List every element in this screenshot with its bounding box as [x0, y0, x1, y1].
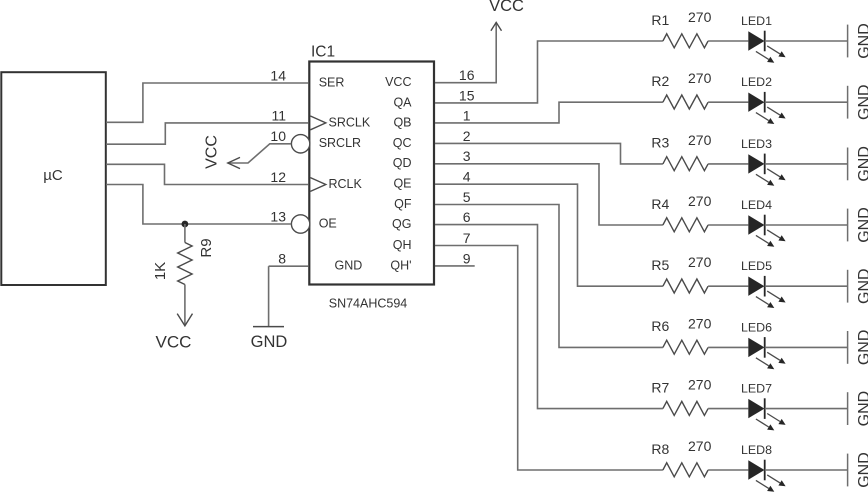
svg-text:270: 270 [688, 254, 712, 270]
svg-text:VCC: VCC [203, 135, 220, 169]
svg-text:GND: GND [856, 452, 868, 488]
svg-text:R7: R7 [651, 379, 669, 395]
svg-text:LED8: LED8 [741, 443, 772, 457]
svg-text:3: 3 [463, 148, 471, 164]
svg-text:1K: 1K [152, 262, 169, 280]
svg-text:270: 270 [688, 315, 712, 331]
svg-text:GND: GND [856, 84, 868, 120]
svg-text:QD: QD [393, 156, 412, 170]
svg-text:QC: QC [393, 136, 412, 150]
svg-text:5: 5 [463, 189, 471, 205]
svg-text:GND: GND [856, 268, 868, 304]
svg-text:R8: R8 [651, 441, 669, 457]
svg-text:LED6: LED6 [741, 320, 772, 334]
svg-text:2: 2 [463, 128, 471, 144]
svg-text:SRCLR: SRCLR [319, 136, 361, 150]
svg-text:9: 9 [463, 250, 471, 266]
svg-text:6: 6 [463, 209, 471, 225]
svg-text:14: 14 [270, 67, 286, 83]
svg-text:R5: R5 [651, 257, 669, 273]
svg-text:10: 10 [270, 128, 286, 144]
svg-text:1: 1 [463, 107, 471, 123]
svg-text:270: 270 [688, 70, 712, 86]
svg-text:12: 12 [270, 169, 286, 185]
svg-text:GND: GND [856, 23, 868, 59]
svg-text:QH': QH' [390, 258, 411, 272]
svg-text:R6: R6 [651, 318, 669, 334]
svg-text:SRCLK: SRCLK [329, 115, 371, 129]
svg-text:SER: SER [319, 75, 345, 89]
svg-text:QB: QB [393, 115, 411, 129]
svg-text:QG: QG [392, 217, 411, 231]
svg-text:R1: R1 [651, 12, 669, 28]
svg-text:R9: R9 [198, 238, 215, 257]
svg-text:µC: µC [43, 167, 63, 184]
svg-text:R3: R3 [651, 135, 669, 151]
svg-text:GND: GND [251, 333, 288, 351]
svg-text:LED1: LED1 [741, 14, 772, 28]
svg-text:270: 270 [688, 132, 712, 148]
svg-text:15: 15 [459, 87, 475, 103]
svg-text:GND: GND [335, 259, 363, 273]
svg-text:SN74AHC594: SN74AHC594 [329, 297, 408, 311]
svg-text:OE: OE [319, 216, 337, 230]
svg-text:4: 4 [463, 169, 471, 185]
svg-text:RCLK: RCLK [329, 177, 363, 191]
svg-text:GND: GND [856, 146, 868, 182]
svg-text:270: 270 [688, 377, 712, 393]
svg-text:QH: QH [393, 238, 412, 252]
svg-text:QA: QA [393, 95, 412, 109]
svg-text:VCC: VCC [156, 333, 192, 352]
svg-text:11: 11 [271, 107, 286, 123]
svg-text:LED3: LED3 [741, 137, 772, 151]
svg-text:LED5: LED5 [741, 259, 772, 273]
svg-text:13: 13 [270, 208, 286, 224]
svg-text:R4: R4 [651, 196, 669, 212]
svg-text:QF: QF [394, 197, 412, 211]
svg-text:270: 270 [688, 9, 712, 25]
svg-text:7: 7 [463, 230, 471, 246]
svg-text:8: 8 [278, 251, 286, 267]
svg-text:VCC: VCC [385, 75, 411, 89]
svg-text:LED4: LED4 [741, 198, 772, 212]
svg-text:16: 16 [459, 67, 475, 83]
svg-text:270: 270 [688, 193, 712, 209]
svg-text:IC1: IC1 [311, 44, 335, 61]
svg-text:GND: GND [856, 330, 868, 366]
svg-text:GND: GND [856, 207, 868, 243]
svg-text:270: 270 [688, 438, 712, 454]
svg-text:VCC: VCC [489, 0, 524, 15]
svg-text:R2: R2 [651, 73, 669, 89]
svg-text:GND: GND [856, 391, 868, 427]
svg-text:QE: QE [393, 177, 411, 191]
svg-text:LED2: LED2 [741, 75, 772, 89]
svg-text:LED7: LED7 [741, 382, 772, 396]
